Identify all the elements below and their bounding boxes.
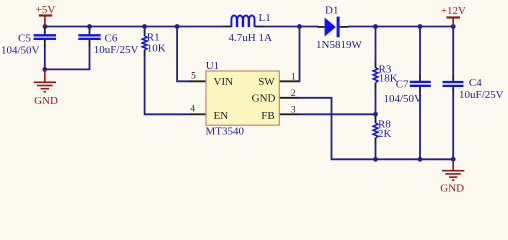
svg-text:10K: 10K: [147, 43, 166, 55]
svg-text:C5: C5: [18, 33, 31, 45]
svg-text:MT3540: MT3540: [206, 126, 245, 138]
svg-text:10uF/25V: 10uF/25V: [94, 44, 139, 56]
svg-text:C4: C4: [469, 77, 482, 89]
svg-text:+5V: +5V: [36, 4, 56, 16]
svg-text:C7: C7: [396, 78, 409, 90]
svg-text:5: 5: [191, 72, 196, 82]
svg-text:VIN: VIN: [214, 76, 234, 88]
svg-text:D1: D1: [325, 5, 338, 17]
svg-text:4.7uH 1A: 4.7uH 1A: [229, 32, 272, 44]
svg-text:2K: 2K: [378, 128, 392, 140]
svg-text:104/50V: 104/50V: [384, 93, 423, 105]
svg-text:GND: GND: [440, 183, 464, 195]
svg-text:4: 4: [190, 105, 195, 115]
svg-text:GND: GND: [252, 92, 276, 104]
svg-text:GND: GND: [34, 95, 58, 107]
svg-text:1: 1: [291, 73, 296, 83]
svg-text:+12V: +12V: [441, 5, 466, 17]
svg-text:EN: EN: [214, 110, 229, 122]
svg-text:1N5819W: 1N5819W: [316, 39, 362, 51]
svg-text:3: 3: [291, 105, 296, 115]
svg-text:SW: SW: [258, 76, 275, 88]
svg-text:L1: L1: [259, 12, 271, 24]
svg-text:10uF/25V: 10uF/25V: [459, 89, 504, 101]
svg-text:2: 2: [291, 89, 296, 99]
svg-text:104/50V: 104/50V: [1, 45, 40, 57]
svg-text:U1: U1: [206, 60, 219, 72]
svg-text:R1: R1: [147, 31, 160, 43]
svg-text:FB: FB: [261, 110, 274, 122]
svg-text:C6: C6: [105, 33, 118, 45]
